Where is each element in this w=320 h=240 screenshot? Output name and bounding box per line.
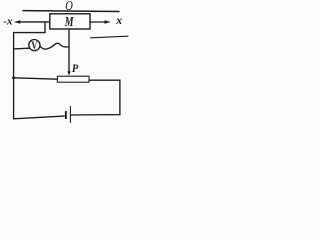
svg-text:V: V (31, 40, 38, 52)
svg-text:M: M (64, 14, 74, 29)
svg-text:-x: -x (3, 15, 13, 27)
svg-text:x: x (115, 13, 122, 27)
svg-text:O: O (65, 0, 73, 13)
svg-text:P: P (72, 63, 79, 75)
